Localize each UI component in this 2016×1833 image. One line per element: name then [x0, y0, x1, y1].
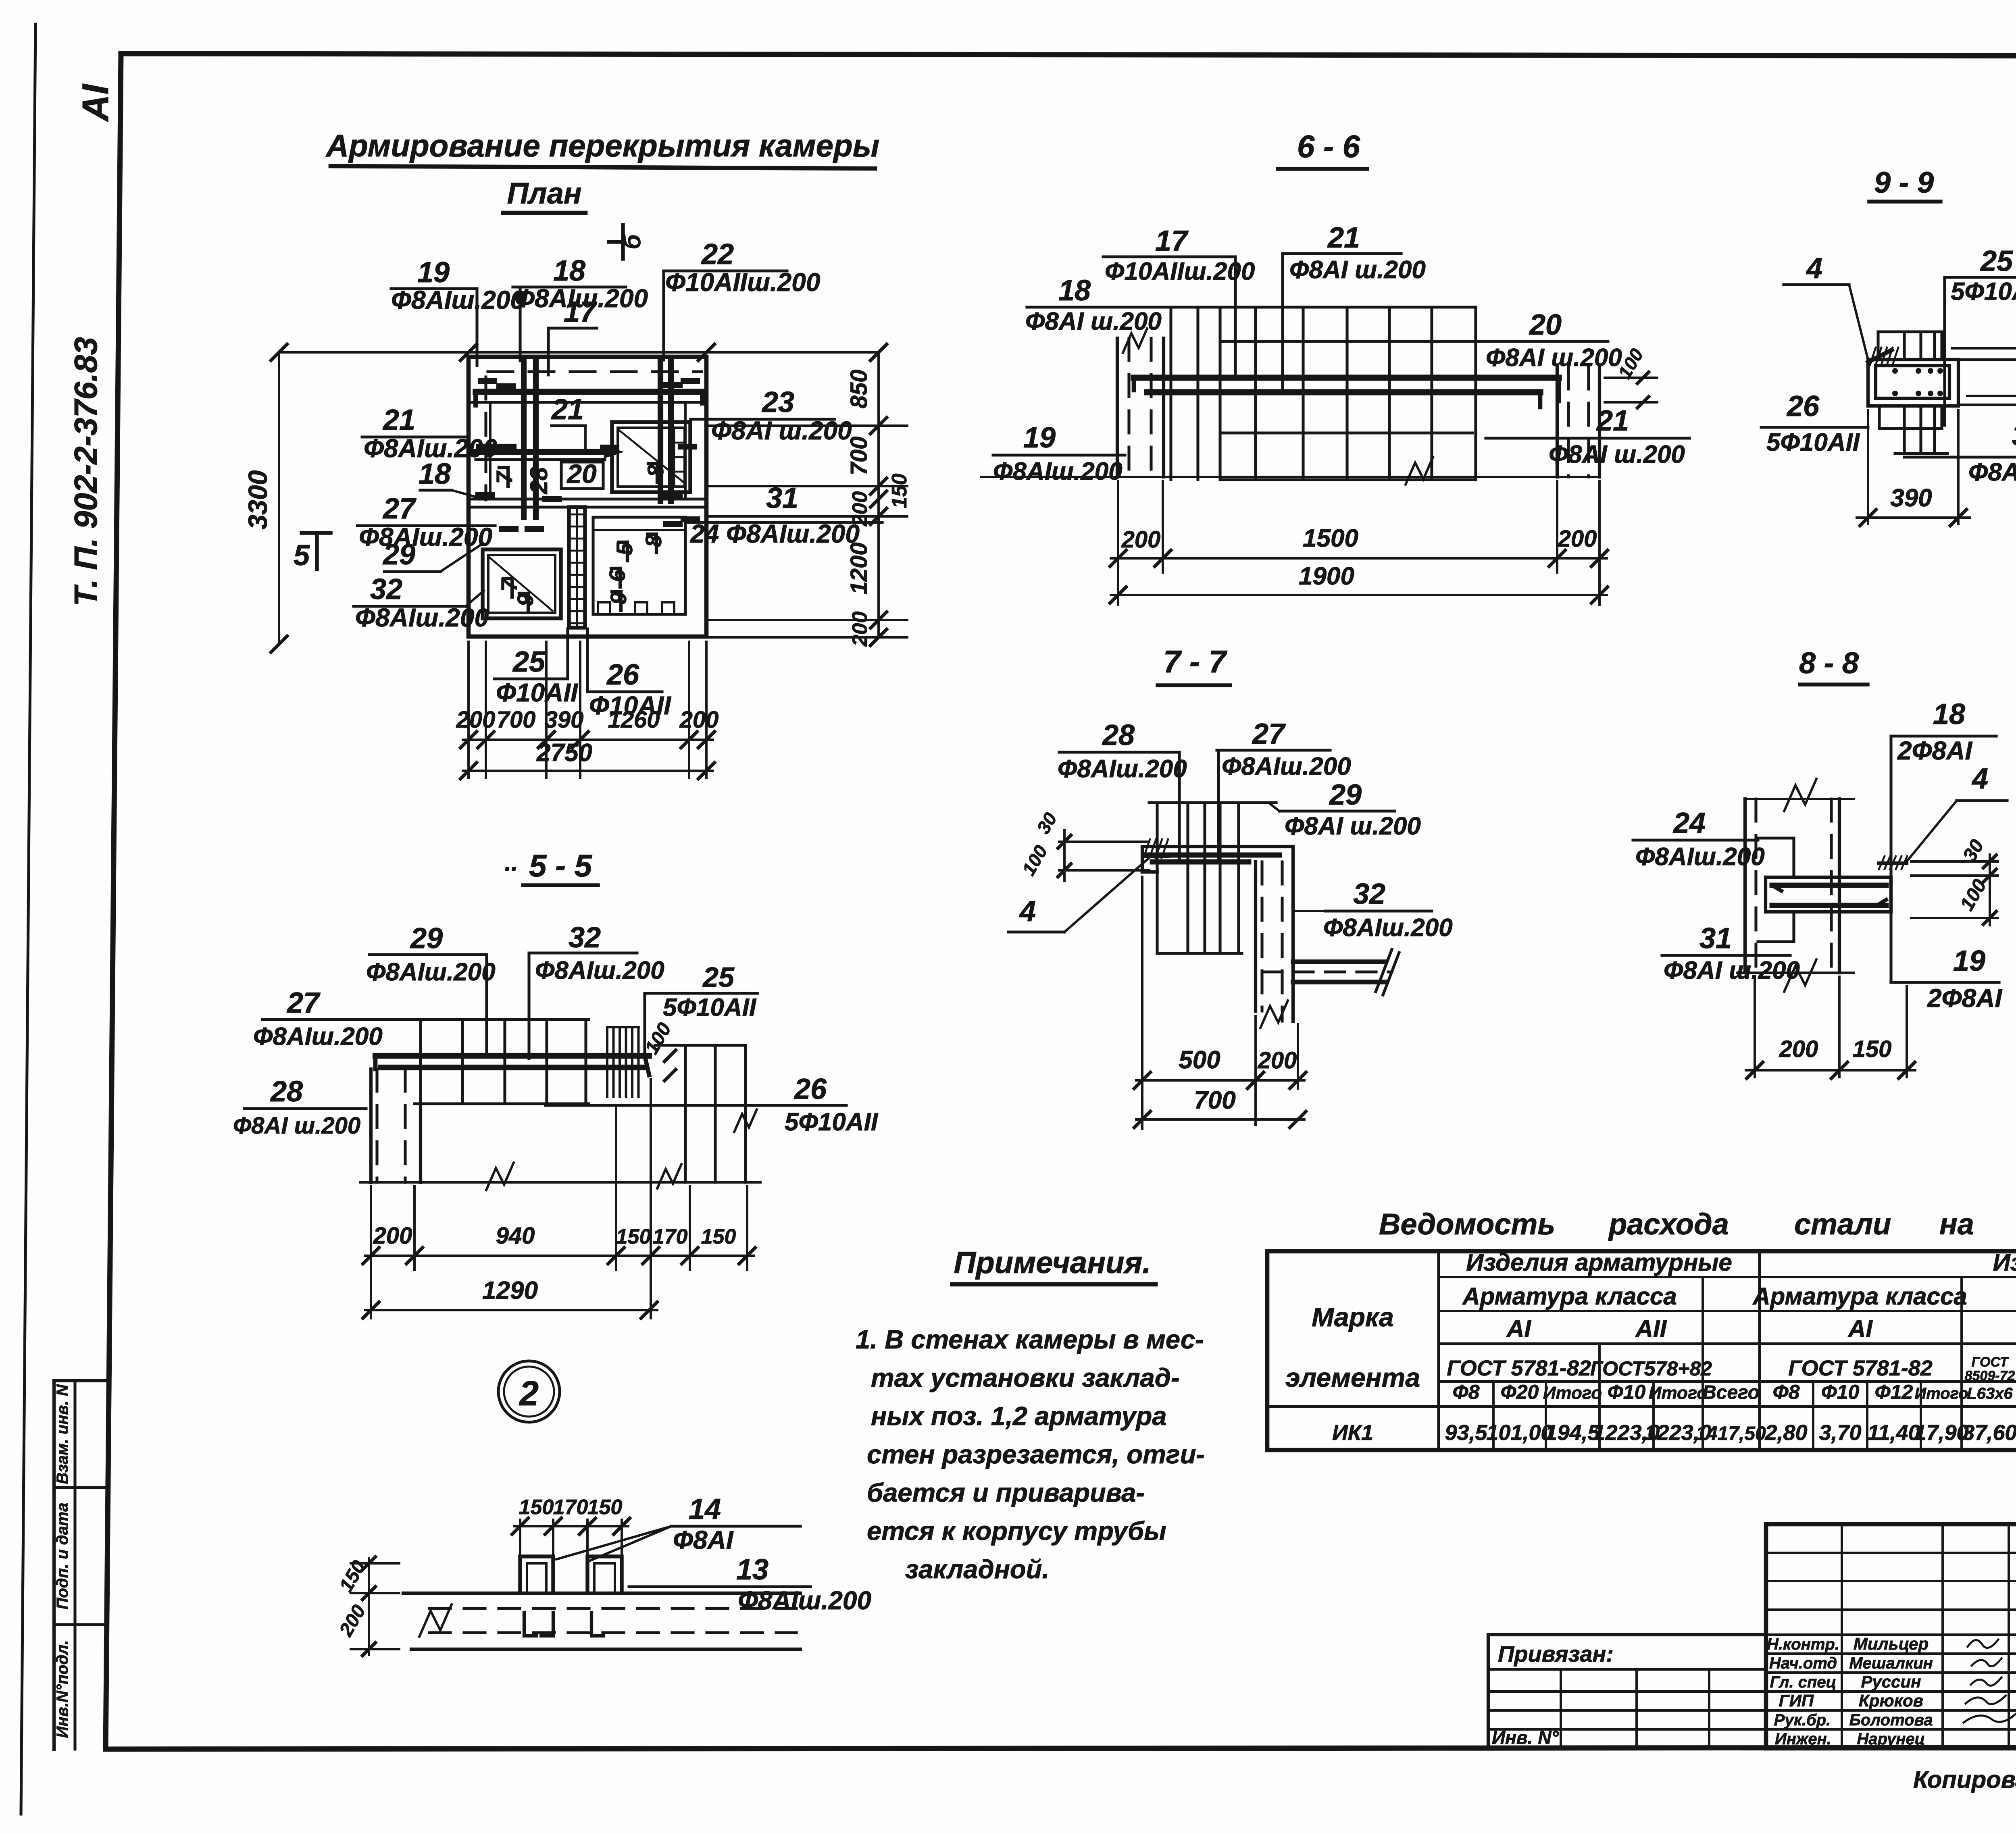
svg-text:Мешалкин: Мешалкин [1849, 1654, 1933, 1672]
plan outer contour [469, 357, 706, 637]
sec88 bottom dims 200 150 [1754, 977, 1756, 1077]
svg-text:L63x6: L63x6 [1967, 1385, 2013, 1402]
sec77 right wall [1254, 862, 1257, 1011]
det2 top dims 150 170 150 [519, 1520, 521, 1554]
svg-text:6: 6 [604, 569, 630, 582]
svg-text:8 - 8: 8 - 8 [1799, 646, 1859, 680]
sec77 weld hatch [1143, 839, 1150, 858]
detail 2 circle mark [498, 1361, 560, 1422]
svg-text:4: 4 [1019, 895, 1036, 928]
svg-text:30: 30 [1033, 809, 1061, 837]
svg-text:Ф8: Ф8 [1773, 1381, 1800, 1403]
svg-text:13: 13 [736, 1554, 768, 1586]
sec66 mesh verticals [1169, 307, 1172, 480]
svg-text:на: на [1939, 1207, 1974, 1241]
svg-text:Ф8АІш.200: Ф8АІш.200 [1222, 753, 1351, 780]
svg-text:Ф8: Ф8 [1453, 1381, 1480, 1403]
sec66 bottom dims [1117, 481, 1119, 605]
svg-text:20: 20 [566, 459, 597, 489]
svg-text:940: 940 [496, 1223, 535, 1249]
svg-text:Нарунец: Нарунец [1857, 1730, 1925, 1748]
svg-text:5: 5 [294, 539, 310, 572]
svg-text:бается и приварива-: бается и приварива- [867, 1478, 1145, 1507]
svg-text:30: 30 [2012, 420, 2016, 452]
svg-text:Привязан:: Привязан: [1498, 1641, 1614, 1667]
svg-text:АІ: АІ [75, 83, 116, 122]
svg-text:АІ: АІ [1847, 1315, 1873, 1342]
sec99 outer rect [1868, 360, 1958, 406]
plan dim left 3300 [278, 352, 280, 644]
svg-text:Ф8АІ ш.200: Ф8АІ ш.200 [1285, 812, 1421, 840]
svg-text:500: 500 [1179, 1046, 1220, 1074]
svg-text:Ф8АІш.200: Ф8АІш.200 [355, 603, 489, 632]
plan dim bottom extensions [467, 642, 470, 778]
svg-text:ется к корпусу трубы: ется к корпусу трубы [867, 1516, 1166, 1546]
svg-text:700: 700 [497, 707, 536, 733]
svg-text:Ф8АІш.200: Ф8АІш.200 [993, 458, 1123, 485]
svg-text:200: 200 [848, 491, 872, 527]
svg-text:200: 200 [1121, 526, 1161, 553]
svg-text:29: 29 [382, 539, 415, 571]
svg-text:3300: 3300 [243, 470, 273, 529]
svg-text:Ф8АІ: Ф8АІ [673, 1525, 734, 1554]
svg-text:3,70: 3,70 [1819, 1421, 1861, 1445]
sec66 right wall [1556, 367, 1559, 477]
svg-text:1500: 1500 [1303, 524, 1358, 552]
svg-text:2Ф8АІ: 2Ф8АІ [1897, 736, 1972, 765]
signature squiggles [1968, 1640, 1998, 1648]
svg-text:Ф8АІ ш.200: Ф8АІ ш.200 [711, 416, 852, 445]
svg-text:170: 170 [653, 1225, 688, 1248]
svg-text:24: 24 [1672, 807, 1706, 839]
svg-text:элемента: элемента [1285, 1363, 1420, 1392]
sec88 wall verticals [1743, 799, 1747, 973]
svg-text:27: 27 [1252, 718, 1286, 750]
svg-text:АІ: АІ [1506, 1315, 1531, 1342]
svg-text:29: 29 [410, 922, 443, 955]
svg-text:390: 390 [545, 707, 584, 733]
svg-text:32: 32 [1353, 878, 1385, 910]
svg-text:Ф8АІ ш.200: Ф8АІ ш.200 [1968, 458, 2016, 486]
svg-text:4: 4 [1971, 763, 1988, 795]
sec55 bottom dims [370, 1186, 372, 1318]
svg-text:Взам. инв. N: Взам. инв. N [54, 1384, 71, 1484]
svg-text:100: 100 [1018, 841, 1052, 879]
svg-text:Ф20: Ф20 [1501, 1381, 1539, 1403]
svg-text:18: 18 [553, 255, 585, 287]
svg-text:27: 27 [286, 987, 321, 1019]
svg-text:17: 17 [1155, 225, 1189, 257]
svg-text:Рук.бр.: Рук.бр. [1774, 1711, 1831, 1729]
svg-text:8509-72: 8509-72 [1965, 1368, 2015, 1384]
svg-text:8: 8 [641, 535, 666, 547]
svg-text:1290: 1290 [482, 1277, 538, 1305]
svg-text:Ф10АІІш.200: Ф10АІІш.200 [1105, 258, 1255, 285]
svg-text:Ф10АІІ: Ф10АІІ [496, 678, 578, 707]
svg-text:ГОСТ 5781-82: ГОСТ 5781-82 [1788, 1356, 1933, 1380]
svg-text:170: 170 [553, 1496, 588, 1519]
sec77 bottom dims 500 200 700 [1141, 877, 1143, 1129]
svg-text:Руссин: Руссин [1861, 1672, 1921, 1691]
svg-text:26: 26 [606, 659, 639, 691]
svg-text:101,00: 101,00 [1486, 1421, 1553, 1445]
svg-text:ГИП: ГИП [1779, 1691, 1814, 1710]
sec99 bottom dim 390 [1867, 410, 1869, 524]
svg-text:АІІ: АІІ [1635, 1315, 1667, 1342]
svg-text:93,5: 93,5 [1445, 1421, 1487, 1445]
plan opening square D top-right [612, 422, 690, 492]
svg-text:9: 9 [512, 593, 538, 606]
svg-text:21: 21 [382, 404, 415, 436]
plan dim right chain [877, 352, 880, 637]
svg-text:Болотова: Болотова [1849, 1711, 1933, 1729]
svg-text:Итого: Итого [1914, 1385, 1968, 1402]
svg-text:Ф8АІш.200: Ф8АІш.200 [535, 957, 664, 984]
steel table box [1267, 1251, 2016, 1450]
svg-text:25: 25 [1980, 245, 2013, 277]
svg-text:Ф8АІ ш.200: Ф8АІ ш.200 [233, 1113, 360, 1139]
svg-text:150: 150 [888, 474, 911, 509]
svg-text:расхода: расхода [1608, 1207, 1729, 1241]
svg-text:Ф8АІш.200: Ф8АІш.200 [391, 285, 525, 314]
svg-text:1260: 1260 [608, 707, 660, 733]
svg-text:Ф8АІ ш.200: Ф8АІ ш.200 [1664, 957, 1800, 984]
sec77 left dims 30 100 [1059, 841, 1149, 843]
svg-text:21: 21 [551, 393, 584, 426]
svg-text:18: 18 [419, 458, 451, 490]
svg-text:150: 150 [701, 1225, 736, 1248]
sec66 mesh horizontals [1220, 431, 1472, 434]
sec99 inner cage [1876, 366, 1949, 398]
plan dim right extension lines [706, 424, 907, 427]
svg-text:150: 150 [587, 1496, 623, 1519]
sec99 right dims 30 100 130 [1952, 347, 2016, 350]
svg-text:100: 100 [2010, 356, 2016, 395]
svg-text:Ф12: Ф12 [1875, 1381, 1913, 1403]
svg-text:Ф10АІІш.200: Ф10АІІш.200 [665, 268, 820, 297]
svg-text:1. В стенах камеры в мес-: 1. В стенах камеры в мес- [856, 1325, 1204, 1354]
svg-text:29: 29 [1329, 779, 1362, 811]
svg-text:1200: 1200 [846, 542, 872, 594]
svg-text:200: 200 [1779, 1036, 1818, 1062]
svg-text:200: 200 [335, 1601, 370, 1640]
det2 slab lines [403, 1592, 800, 1595]
svg-text:ГОСТ: ГОСТ [1972, 1354, 2010, 1370]
plan hatched strip pos30 [569, 507, 585, 628]
plan room G outline [593, 517, 685, 614]
sec55 bottom break line [360, 1181, 760, 1184]
svg-text:21: 21 [1327, 222, 1360, 254]
svg-text:19: 19 [1023, 422, 1056, 454]
svg-text:Марка: Марка [1312, 1302, 1394, 1332]
sec66 mini dim 100 right [1605, 377, 1657, 379]
svg-text:стали: стали [1794, 1207, 1891, 1241]
svg-text:5 - 5: 5 - 5 [529, 848, 593, 883]
svg-text:9: 9 [606, 592, 631, 604]
sec88 wall cut lines [1745, 798, 1854, 800]
plan mark 20 box [561, 462, 603, 489]
svg-text:Ф8АІш.200: Ф8АІш.200 [738, 1586, 871, 1615]
svg-text:200: 200 [848, 612, 872, 647]
det2 left dims 150 200 [368, 1558, 370, 1655]
plan top wall inner line [469, 401, 706, 404]
plan thick bar 21 top [476, 389, 702, 395]
svg-text:8: 8 [643, 464, 668, 477]
svg-text:25: 25 [702, 961, 735, 993]
svg-text:25: 25 [512, 646, 546, 678]
svg-text:14: 14 [689, 1493, 721, 1525]
sec66 left wall [1116, 338, 1119, 477]
sec88 slab outline [1766, 876, 1891, 879]
svg-text:План: План [507, 177, 581, 210]
svg-text:700: 700 [1194, 1086, 1235, 1114]
det2 channel 2 [587, 1556, 622, 1593]
sec55 right mesh tail [655, 1044, 746, 1047]
svg-text:Копировал: М: Копировал: М [1913, 1766, 2016, 1793]
svg-text:37,60: 37,60 [1962, 1421, 2016, 1445]
svg-text:26: 26 [1786, 390, 1820, 422]
svg-text:Итого: Итого [1649, 1383, 1708, 1403]
svg-text:Ф10: Ф10 [1608, 1381, 1646, 1403]
sec55 mesh above and below slab [421, 1018, 589, 1021]
svg-text:2Ф8АІ: 2Ф8АІ [1927, 984, 2002, 1013]
plan dim bottom chain2 2750 [463, 770, 713, 772]
svg-text:20: 20 [1529, 309, 1562, 341]
svg-text:5Ф10АІІ: 5Ф10АІІ [785, 1108, 879, 1136]
svg-text:2750: 2750 [536, 739, 592, 767]
privyazan table [1488, 1635, 1766, 1748]
plan dashed vertical left [484, 377, 487, 500]
svg-text:2,80: 2,80 [1764, 1421, 1807, 1445]
svg-text:Изделия арматурные: Изделия арматурные [1466, 1249, 1732, 1276]
svg-text:19: 19 [417, 256, 450, 289]
svg-text:ИК1: ИК1 [1332, 1421, 1373, 1445]
plan dim bottom chain1 [463, 739, 713, 741]
svg-text:19: 19 [1953, 945, 1985, 977]
plan vertical bars 18-19 thick [521, 360, 527, 517]
svg-text:Всего: Всего [1702, 1382, 1760, 1403]
svg-text:Ф8АІш.200: Ф8АІш.200 [366, 958, 496, 986]
svg-text:200: 200 [1258, 1047, 1297, 1074]
svg-text:Ф8АІш.200: Ф8АІш.200 [1635, 843, 1765, 871]
svg-text:Изделия закладные: Изделия закладные [1993, 1249, 2016, 1276]
svg-text:Примечания.: Примечания. [954, 1246, 1151, 1280]
sec66 ground line [981, 476, 1599, 478]
plan vertical bars 22 thick [658, 360, 663, 501]
svg-text:Нач.отд: Нач.отд [1769, 1654, 1837, 1672]
svg-text:18: 18 [1058, 275, 1091, 307]
svg-text:Подп. и дата: Подп. и дата [54, 1503, 71, 1610]
svg-text:17,90: 17,90 [1914, 1421, 1968, 1445]
svg-text:Ф8АІш.200: Ф8АІш.200 [253, 1023, 383, 1051]
sec55 dense anchor hatch pos25 [606, 1027, 608, 1096]
svg-text:Ф8АІ ш.200: Ф8АІ ш.200 [1486, 344, 1622, 372]
sec88 left protrusion [1758, 836, 1794, 839]
svg-text:150: 150 [616, 1225, 651, 1248]
svg-text:390: 390 [1890, 484, 1932, 512]
svg-text:32: 32 [370, 573, 402, 605]
svg-text:23: 23 [761, 386, 794, 418]
svg-text:Ф8АІш.200: Ф8АІш.200 [1323, 914, 1453, 942]
svg-text:150: 150 [1853, 1036, 1892, 1062]
svg-text:28: 28 [525, 467, 552, 494]
sec88 right dims 30 100 [1911, 860, 1998, 863]
sec66 slab bars thick [1134, 375, 1559, 381]
svg-text:ных поз. 1,2 арматура: ных поз. 1,2 арматура [871, 1401, 1167, 1431]
plan bar end hooks [481, 378, 494, 384]
title block outer [1766, 1524, 2016, 1748]
svg-text:7 - 7: 7 - 7 [1163, 644, 1228, 679]
sec55 mini dim 100 [664, 1050, 676, 1061]
svg-text:1900: 1900 [1299, 562, 1354, 590]
svg-text:Инв. N°: Инв. N° [1492, 1727, 1559, 1748]
det2 channel 1 [520, 1556, 553, 1593]
svg-text:150: 150 [519, 1496, 554, 1519]
svg-text:850: 850 [846, 370, 872, 409]
svg-text:26: 26 [793, 1073, 827, 1105]
svg-text:200: 200 [456, 707, 496, 733]
svg-text:Ф10: Ф10 [1821, 1381, 1860, 1403]
svg-text:1417,50: 1417,50 [1696, 1423, 1766, 1444]
svg-text:2: 2 [519, 1374, 539, 1413]
svg-text:200: 200 [679, 707, 719, 733]
sec77 pipe right [1293, 959, 1385, 964]
svg-text:Арматура класса: Арматура класса [1462, 1283, 1677, 1310]
svg-text:Ф8АІш.200: Ф8АІш.200 [1058, 755, 1187, 783]
svg-text:Арматура класса: Арматура класса [1752, 1283, 1967, 1310]
svg-text:..: .. [504, 849, 518, 876]
steel table horizontal lines [1439, 1276, 2016, 1278]
svg-text:28: 28 [270, 1076, 303, 1108]
svg-text:700: 700 [846, 437, 872, 476]
svg-text:18: 18 [1933, 698, 1965, 730]
svg-text:5: 5 [612, 543, 637, 556]
svg-text:24 Ф8АІш.200: 24 Ф8АІш.200 [690, 519, 860, 548]
svg-text:32: 32 [569, 922, 601, 954]
svg-text:ГОСТ 5781-82: ГОСТ 5781-82 [1447, 1356, 1591, 1380]
svg-text:5Ф10АІІ: 5Ф10АІІ [663, 994, 757, 1022]
plan section mark Tb top [621, 225, 625, 259]
sec99 top mesh [1878, 330, 1942, 333]
steel table vertical lines [1437, 1251, 1440, 1450]
det2 anchors below [524, 1612, 536, 1636]
plan dim top line [279, 351, 879, 354]
svg-text:200: 200 [373, 1223, 412, 1249]
svg-text:Инв.N°подл.: Инв.N°подл. [54, 1640, 71, 1738]
sheet outer edge line left [21, 24, 35, 1814]
sec55 left wall [369, 1069, 373, 1182]
svg-text:Итого: Итого [1543, 1383, 1602, 1403]
svg-text:тах установки заклад-: тах установки заклад- [871, 1363, 1180, 1392]
sec88 weld hatch strip [1879, 861, 1907, 865]
plan opening square E bottom-left [483, 549, 561, 618]
sec88 slab bars thick [1772, 883, 1886, 888]
plan mid wall double line [469, 497, 706, 500]
svg-text:Крюков: Крюков [1859, 1691, 1923, 1710]
svg-text:Мильцер: Мильцер [1854, 1634, 1929, 1653]
sec55 slab bars thick [375, 1053, 649, 1059]
svg-text:7: 7 [492, 470, 517, 484]
svg-text:Ф8АІ ш.200: Ф8АІ ш.200 [1289, 256, 1426, 284]
svg-text:4: 4 [1806, 252, 1822, 285]
sec77 mesh [1149, 801, 1276, 804]
svg-text:22: 22 [701, 238, 734, 270]
sec99 lower mesh [1878, 406, 1881, 429]
sec77 slab bars thick [1147, 853, 1279, 858]
svg-text:5Ф10АІІ: 5Ф10АІІ [1951, 278, 2016, 306]
plan inner wall verticals [489, 402, 492, 499]
left margin stamp boxes [52, 1381, 56, 1749]
plan dashed top bar 17 [488, 370, 702, 373]
svg-text:Н.контр.: Н.контр. [1767, 1635, 1839, 1653]
svg-text:Ведомость: Ведомость [1379, 1207, 1555, 1241]
svg-text:9 - 9: 9 - 9 [1874, 166, 1934, 199]
svg-text:б: б [619, 234, 646, 250]
svg-text:5Ф10АІІ: 5Ф10АІІ [1766, 429, 1860, 456]
svg-text:Гл. спец: Гл. спец [1770, 1673, 1837, 1691]
svg-text:11,40: 11,40 [1867, 1421, 1920, 1445]
svg-text:Ф8АІ ш.200: Ф8АІ ш.200 [1025, 308, 1162, 335]
svg-text:17: 17 [564, 296, 597, 328]
svg-text:закладной.: закладной. [905, 1554, 1049, 1584]
svg-text:стен разрезается, отги-: стен разрезается, отги- [867, 1440, 1205, 1469]
sec99 bent plate pos4 with hatch [1868, 350, 1892, 362]
svg-text:Инжен.: Инжен. [1775, 1730, 1831, 1748]
sec77 slab outline [1142, 845, 1293, 848]
svg-text:31: 31 [1699, 922, 1732, 955]
svg-text:27: 27 [382, 493, 417, 525]
svg-text:ГОСТ578+82: ГОСТ578+82 [1590, 1357, 1712, 1380]
svg-text:Т. П. 902-2-376.83: Т. П. 902-2-376.83 [68, 337, 104, 606]
signature grid [1841, 1524, 1843, 1748]
svg-text:28: 28 [1102, 719, 1135, 751]
svg-text:6 - 6: 6 - 6 [1297, 129, 1360, 164]
svg-text:Армирование перекрытия камер: Армирование перекрытия камеры [325, 128, 880, 163]
svg-text:194,5: 194,5 [1545, 1421, 1600, 1445]
svg-text:200: 200 [1558, 526, 1597, 552]
plan thick bar mid with arrow [476, 449, 613, 455]
